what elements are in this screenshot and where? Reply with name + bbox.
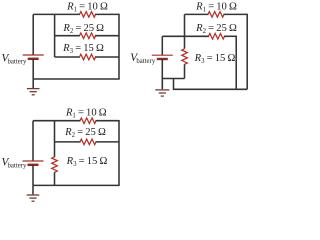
wire right edge (circuit 3) [118,120,120,185]
ground G1 stem [32,79,34,88]
wire battery top lead (circuit 2) [161,36,163,55]
battery V1 negative plate [28,58,39,60]
svg-text:R3 = 15 Ω: R3 = 15 Ω [62,43,104,55]
wire R2 return vertical (circuit 2) [235,36,237,90]
wire R3 bottom lead (circuit 2) [184,64,186,78]
svg-text:Vbattery: Vbattery [130,52,156,65]
wire R2 to right vertical (circuit 2) [224,35,236,37]
wire R3 branch right (circuit 1) [95,56,119,58]
ground G1 bar 3 [32,94,35,96]
svg-text:R2 = 25 Ω: R2 = 25 Ω [62,23,104,35]
battery V3 positive plate [23,160,44,162]
wire left edge / battery top lead (circuit 1) [32,14,34,55]
wire node to bottom return (circuit 2) [173,79,175,90]
resistor R1 (10 ohm, bottom circuit) [80,118,96,124]
resistor R2 (25 ohm, top-left circuit) [80,33,96,39]
wire right edge (circuit 2) [246,14,248,90]
resistor R3 (15 ohm, vertical, top-right circuit) [182,49,188,64]
wire bottom return (circuit 3) [33,184,120,186]
wire node A horizontal (circuit 2) [162,35,209,37]
resistor R2 (25 ohm, bottom circuit) [80,139,96,145]
svg-text:R1 = 10 Ω: R1 = 10 Ω [65,107,107,119]
battery V1 positive plate [23,54,44,56]
wire bottom node (circuit 2) [162,78,184,80]
wire R2 branch left (circuit 3) [55,141,81,143]
wire R3 bottom lead (circuit 3) [54,172,56,185]
wire R3 top lead (circuit 2) [184,36,186,48]
ground G1 bar 2 [30,91,37,93]
ground G3 bar 2 [29,197,36,199]
ground G2 bar 3 [161,95,164,97]
ground G3 bar 3 [32,200,35,202]
wire left edge / battery top lead (circuit 3) [32,121,34,161]
ground G3 stem [32,185,34,194]
resistor R2 (25 ohm, top-right circuit) [209,34,225,40]
wire battery bottom lead (circuit 2) [161,59,163,89]
wire R1 to right edge [95,13,119,15]
wire R1 to right edge (circuit 3) [96,120,120,122]
svg-text:R2 = 25 Ω: R2 = 25 Ω [64,127,106,139]
svg-text:R3 = 15 Ω: R3 = 15 Ω [66,156,108,168]
svg-text:Vbattery: Vbattery [2,156,28,169]
wire R2 branch left (circuit 1) [55,35,80,37]
ground G1 bar 1 [27,88,40,90]
wire inner vertical / R3 top lead (circuit 3) [54,121,56,158]
resistor R1 (10 ohm, top-left circuit) [80,12,96,18]
resistor R3 (15 ohm, top-left circuit) [80,54,96,60]
battery V2 positive plate [152,54,173,56]
ground G3 bar 1 [27,194,40,196]
wire battery bottom lead (circuit 3) [32,165,34,186]
battery V3 negative plate [28,164,39,166]
wire R3 branch left (circuit 1) [55,56,80,58]
wire bottom return (circuit 1) [33,78,120,80]
wire junction up to R1 (circuit 2) [184,14,186,36]
resistor R3 (15 ohm, vertical, bottom circuit) [52,157,58,172]
resistor R1 (10 ohm, top-right circuit) [208,12,224,18]
svg-text:R1 = 10 Ω: R1 = 10 Ω [66,1,108,13]
wire bottom return (circuit 2) [173,88,247,90]
wire top (battery+ to R1, circuit 3) [33,120,81,122]
ground G2 bar 1 [155,89,169,91]
wire inner vertical (circuit 1) [54,14,56,57]
wire R2 branch right (circuit 3) [96,141,120,143]
wire right edge (circuit 1) [118,14,120,79]
battery V2 negative plate [157,58,168,60]
wire top-left node A (battery+ to R1) [33,13,80,15]
ground G2 stem [161,80,163,89]
svg-text:R1 = 10 Ω: R1 = 10 Ω [195,2,237,14]
ground G2 bar 2 [159,92,166,94]
wire R1 left (circuit 2) [185,13,209,15]
svg-text:R3 = 15 Ω: R3 = 15 Ω [194,53,236,65]
svg-text:R2 = 25 Ω: R2 = 25 Ω [195,23,237,35]
wire R2 branch right (circuit 1) [95,35,119,37]
wire battery bottom lead (circuit 1) [32,59,34,79]
wire R1 right (circuit 2) [224,13,248,15]
